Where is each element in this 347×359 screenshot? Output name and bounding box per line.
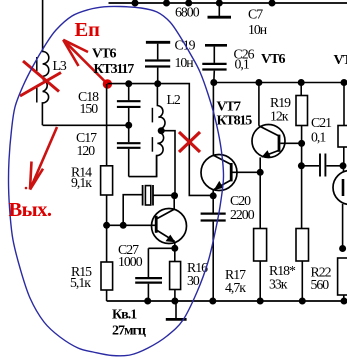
node C7 stem on bus [216,0,223,7]
node C21 left [298,162,305,169]
svg-text:560: 560 [311,277,330,292]
node crystal left leg [120,222,127,229]
svg-text:5,1к: 5,1к [70,275,91,290]
node on bus x189 [185,0,192,7]
svg-text:Вых.: Вых. [9,199,52,221]
node on bus x272 [269,0,276,7]
node VT7 emitter [210,192,217,199]
wire right transistor emitter down [342,204,344,249]
L3 core bar upper [36,57,38,71]
svg-text:0,1: 0,1 [311,130,326,145]
node R19 bottom / VT6 base [298,140,305,147]
svg-text:4,7к: 4,7к [225,280,246,295]
node right column top [341,79,347,86]
svg-text:12к: 12к [270,109,289,124]
red arrow barb 2 [63,40,78,66]
wire red node to corner then down to VT7 emitter [107,84,211,196]
svg-text:C7: C7 [248,7,263,22]
VT6 emitter diagonal [262,151,278,157]
node bus R17 [257,298,264,305]
Q1 emitter arrowhead [166,235,176,243]
svg-text:9,1к: 9,1к [71,175,92,190]
capacitor C26 with ground bar [205,44,227,47]
svg-text:Кв.1: Кв.1 [112,308,137,323]
transistor VT6 circle [252,125,285,158]
wire R19 bottom [301,126,303,144]
node Q1 emitter [171,245,178,252]
wire R22 to bus [343,295,345,301]
resistor R19 [296,96,308,126]
svg-text:КТ3117: КТ3117 [94,62,135,77]
resistor R17 [254,229,267,262]
svg-text:L3: L3 [53,58,67,73]
node collector Qmid [255,79,262,86]
wire crystal left to base node [123,195,142,226]
node C18/C17 junction [125,122,132,129]
wire VT7 collector from C26 node [212,83,214,156]
wire VT6 base to R19 node [280,142,301,144]
svg-text:150: 150 [80,101,99,116]
VT6 emitter stub [259,157,261,172]
wire R17 to bus [259,261,261,301]
node VT7 base / R17 [257,169,264,176]
svg-text:C20: C20 [230,193,251,208]
wire R14 to R15 [106,195,108,262]
wire R16 to bus [174,290,176,302]
node R22 top [339,245,346,252]
svg-text:VT: VT [334,53,347,68]
resistor R22 [338,258,347,295]
wire node to R17 [259,172,261,228]
wire resistor to C21 node [343,147,345,166]
red X over L3 stroke 1 [23,61,59,92]
svg-text:27мгц: 27мгц [112,324,146,339]
svg-text:VT7: VT7 [217,100,241,115]
wire VT7 base to R17 node [233,171,261,173]
wire R18 to bus [301,261,303,301]
wire L3 bottom to C17/C18 node [43,124,129,126]
node on bus x135 [132,0,139,7]
wire right column top [343,83,345,126]
red node dot (supply point) [103,79,112,88]
Q1 collector diagonal [157,209,174,218]
VT7 emitter diagonal [214,180,230,189]
blue ellipse highlight [9,6,224,356]
inductor L3 coil [42,0,48,125]
wire Q1 emitter to R16 [174,248,176,261]
right transistor base bar [342,179,345,196]
node C18 top [125,80,132,87]
crystal Кв.1 right plate [152,185,154,206]
red X cut mark on emitter wire stroke 1 [179,132,200,152]
wire crystal right to node [153,194,175,196]
capacitor C17 [128,125,130,142]
wire base Q1 from R14/R15 node [107,224,155,226]
red X over L3 stroke 2 [20,73,61,97]
VT7 emitter arrowhead [214,181,224,190]
svg-text:10н: 10н [175,55,195,70]
VT7 emitter stub to node [212,190,214,196]
svg-text:30: 30 [187,273,200,288]
svg-text:6800: 6800 [175,5,200,20]
ground symbol [175,301,177,318]
wire R15 to ground bus [106,290,108,301]
VT6 collector diagonal [259,126,279,136]
wire bottom ground bus [107,300,347,302]
svg-text:КТ815: КТ815 [217,114,253,129]
node C19/L2 top [154,80,161,87]
crystal Кв.1 left plate [142,185,144,206]
red arrow shaft to Еп [63,40,107,84]
wire collector Qmid [258,83,260,126]
Q1 emitter diagonal [157,231,174,242]
transistor Q1 circle [152,209,187,244]
node bus C20 [209,298,216,305]
wire L2 tap to crystal node [161,131,175,196]
node on bus x166 [163,0,170,7]
resistor right edge (unlabeled) [338,126,347,148]
capacitor C27 [147,248,149,277]
wire Q1 collector up to crystal node [173,196,175,210]
wire R19 top [300,83,302,96]
red arrow barb 1 [63,40,88,52]
svg-text:33к: 33к [269,277,288,292]
capacitor C19 with ground bar [146,41,170,44]
red arrow shaft to Вых [30,127,57,190]
L2 core bar upper [151,108,153,123]
red arrow barb vertical [30,162,32,190]
node bus R16 [171,298,178,305]
red arrow barb diagonal [30,169,43,190]
node crystal/collector [171,192,178,199]
Q1 emitter stub [174,242,176,249]
wire C17 bottom to L2 bottom [129,156,157,177]
svg-text:10н: 10н [248,22,268,37]
capacitor C18 [128,84,130,100]
red X cut mark on emitter wire stroke 2 [179,132,200,152]
VT6 base bar [278,135,281,152]
resistor R15 [101,262,113,290]
svg-text:2200: 2200 [230,207,255,222]
svg-text:1000: 1000 [118,254,143,269]
capacitor C21 [301,165,319,167]
node base wire R14 [103,222,110,229]
resistor R18 [296,229,309,262]
node R19 top [298,79,305,86]
VT6 emitter arrowhead [261,150,271,157]
wire top supply bus [109,2,347,4]
red arrow speck [25,187,28,190]
svg-text:0,1: 0,1 [235,57,250,72]
VT7 collector diagonal [213,155,230,164]
wire C21 node into transistor [343,166,345,172]
inductor L2 coil [157,84,165,177]
resistor R16 [170,262,181,290]
transistor VT7 circle [201,155,237,191]
node C26 bottom [210,79,217,86]
resistor R14 [101,166,113,195]
node bus R22 [341,298,347,305]
node bus C27 [144,298,151,305]
wire R19 node down to R18 [301,143,303,228]
svg-text:C21: C21 [311,115,332,130]
capacitor C7 ground bar [218,3,220,16]
Q1 base bar [155,216,158,233]
node C21 right [340,162,347,169]
L3 core bar lower [36,86,38,103]
svg-text:120: 120 [77,143,96,158]
wire red node down to R14 [106,84,108,166]
L2 tap node [158,127,165,134]
svg-text:VT6: VT6 [92,47,116,62]
crystal Кв.1 body [145,186,150,205]
wire C26 node to right edge [214,82,347,84]
wire Q1 emitter to C27 [148,247,174,249]
L2 core bar lower [151,137,153,152]
VT7 base bar [230,163,233,181]
node bus R18 [299,298,306,305]
svg-text:Еп: Еп [75,19,101,41]
capacitor C20 [212,196,214,213]
svg-text:L2: L2 [167,92,181,107]
transistor at right edge circle [333,171,347,205]
svg-text:VT6: VT6 [261,52,285,67]
